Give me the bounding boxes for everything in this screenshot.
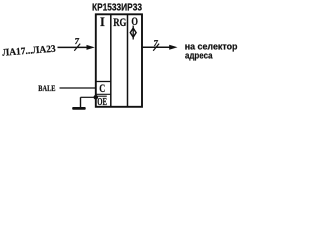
- wire input bus: [58, 46, 91, 48]
- inversion bubble at OE pin: [94, 95, 98, 99]
- svg-text:ЛА17...ЛА23: ЛА17...ЛА23: [2, 44, 56, 59]
- OE overline: [97, 95, 107, 97]
- svg-text:I: I: [100, 15, 105, 29]
- wire OE to ground (horizontal): [81, 96, 95, 98]
- ground symbol: [72, 107, 86, 110]
- wire BALE to C: [60, 87, 96, 89]
- output arrowhead: [169, 45, 177, 50]
- svg-text:C: C: [99, 81, 105, 95]
- IC U1 body: [96, 14, 142, 107]
- output bus-width slash: [153, 44, 159, 51]
- svg-text:КР1533ИР33: КР1533ИР33: [92, 3, 142, 14]
- svg-text:адреса: адреса: [185, 50, 213, 61]
- svg-text:ОЕ: ОЕ: [97, 97, 107, 108]
- IC U1 divider I/RG: [110, 14, 112, 107]
- wire output bus: [142, 46, 171, 48]
- wire OE to ground (vertical): [80, 97, 82, 107]
- IC U1 C/OE separator: [95, 93, 111, 95]
- svg-text:RG: RG: [113, 15, 126, 29]
- IC U1 divider RG/O: [127, 14, 129, 107]
- svg-text:O: O: [131, 16, 138, 28]
- svg-text:7: 7: [153, 38, 159, 48]
- input arrowhead: [87, 45, 95, 50]
- input bus-width slash: [74, 44, 80, 51]
- IC U1 control-section separator: [95, 81, 111, 83]
- three-state output symbol (diamond): [130, 26, 136, 40]
- svg-text:BALE: BALE: [38, 83, 55, 93]
